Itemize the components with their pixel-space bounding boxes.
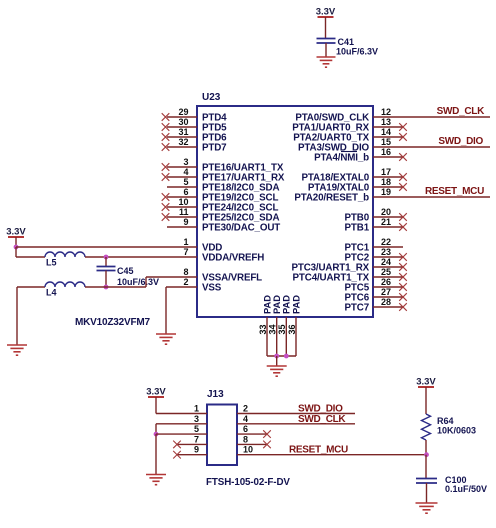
U23 left pin 2 VSS xyxy=(183,277,221,293)
svg-text:PTA4/NMI_b: PTA4/NMI_b xyxy=(314,152,369,163)
wire C100 to ground xyxy=(426,483,428,503)
svg-text:J13: J13 xyxy=(207,389,224,400)
svg-text:2: 2 xyxy=(183,277,188,287)
svg-text:MKV10Z32VFM7: MKV10Z32VFM7 xyxy=(75,317,150,328)
svg-text:17: 17 xyxy=(381,167,391,177)
svg-text:27: 27 xyxy=(381,287,391,297)
wire SWD_DIO (J13 pin 2) xyxy=(237,413,355,415)
svg-text:26: 26 xyxy=(381,277,391,287)
svg-text:0.1uF/50V: 0.1uF/50V xyxy=(445,484,487,494)
svg-text:10: 10 xyxy=(178,197,188,207)
svg-text:4: 4 xyxy=(243,414,248,424)
wire L5 to pin 7 xyxy=(85,256,197,258)
ground U23 pads xyxy=(267,366,287,376)
U23 right pin 17 PTA18/EXTAL0 xyxy=(301,167,406,183)
svg-text:RESET_MCU: RESET_MCU xyxy=(425,186,484,197)
wire pad bus stem xyxy=(276,356,278,366)
wire RESET_MCU (J13 pin 10) xyxy=(237,454,427,456)
J13 left pin 5 number xyxy=(194,424,199,434)
net label SWD_CLK xyxy=(437,106,485,117)
svg-text:30: 30 xyxy=(178,117,188,127)
wire R64 to junction xyxy=(425,440,427,455)
svg-text:C41: C41 xyxy=(338,37,355,47)
junction RESET_MCU/R64 xyxy=(424,452,429,457)
svg-text:3.3V: 3.3V xyxy=(416,377,436,388)
svg-text:SWD_DIO: SWD_DIO xyxy=(438,136,483,147)
label C45 xyxy=(117,266,134,276)
svg-text:22: 22 xyxy=(381,237,391,247)
U23 bottom pin 34 PAD xyxy=(268,295,283,356)
wire J13 pin 5 xyxy=(156,433,207,435)
svg-text:10: 10 xyxy=(243,445,253,455)
wire RESET_MCU (pin 19) xyxy=(373,196,490,198)
J13 right pin 2 number xyxy=(243,404,248,414)
ground J13 xyxy=(146,475,166,485)
U23 left pin 8 VSSA/VREFL xyxy=(183,267,262,283)
wire SWD_DIO (pin 15) xyxy=(373,146,490,148)
J13 pin 8 stub xyxy=(237,441,271,449)
svg-text:1: 1 xyxy=(194,404,199,414)
wire C41 to ground xyxy=(325,43,327,57)
power 3.3V (J13) xyxy=(146,387,166,398)
svg-text:L5: L5 xyxy=(46,258,57,268)
label R64 value xyxy=(437,426,476,436)
net label SWD_CLK (J13) xyxy=(298,414,346,425)
wire C45 top xyxy=(105,257,107,267)
J13 right pin 6 number xyxy=(243,424,248,434)
power 3.3V (R64) xyxy=(416,377,436,388)
svg-text:29: 29 xyxy=(178,107,188,117)
label L4 xyxy=(46,288,57,298)
power 3.3V (C41) xyxy=(316,7,336,18)
wire J13 gnd stem xyxy=(155,434,157,474)
U23 left pin 4 PTE17/UART1_RX xyxy=(162,167,285,183)
svg-text:RESET_MCU: RESET_MCU xyxy=(289,445,348,456)
label C100 xyxy=(445,475,467,485)
svg-text:36: 36 xyxy=(287,324,297,334)
svg-text:3: 3 xyxy=(194,414,199,424)
svg-text:8: 8 xyxy=(183,267,188,277)
U23 right pin 12 PTA0/SWD_CLK xyxy=(295,107,391,123)
U23 left pin 32 PTD7 xyxy=(162,137,227,153)
svg-text:3.3V: 3.3V xyxy=(6,227,26,238)
net label SWD_DIO xyxy=(438,136,483,147)
U23 right pin 20 PTB0 xyxy=(345,207,407,223)
ground VSS xyxy=(156,334,176,344)
svg-text:35: 35 xyxy=(277,324,287,334)
svg-text:PAD: PAD xyxy=(282,295,292,314)
svg-text:6: 6 xyxy=(183,187,188,197)
svg-text:8: 8 xyxy=(243,434,248,444)
svg-text:3.3V: 3.3V xyxy=(146,387,166,398)
junction pad bus B xyxy=(284,354,289,359)
U23 right pin 27 PTC6 xyxy=(345,287,407,303)
svg-text:10K/0603: 10K/0603 xyxy=(437,426,476,436)
svg-text:9: 9 xyxy=(183,217,188,227)
svg-text:2: 2 xyxy=(243,404,248,414)
svg-text:33: 33 xyxy=(258,324,268,334)
J13 left pin 9 number xyxy=(194,445,199,455)
svg-text:34: 34 xyxy=(268,324,278,334)
U23 reference designator xyxy=(202,92,221,103)
label MKV10Z32VFM7 xyxy=(75,317,150,328)
svg-text:PAD: PAD xyxy=(291,295,301,314)
capacitor C45 xyxy=(97,267,116,271)
svg-text:21: 21 xyxy=(381,217,391,227)
wire VDD net to pin 1 xyxy=(16,246,197,248)
svg-text:7: 7 xyxy=(194,434,199,444)
svg-text:PTB1: PTB1 xyxy=(345,222,370,233)
ground C41 xyxy=(317,57,336,67)
capacitor C100 xyxy=(416,479,437,484)
U23 left pin 31 PTD6 xyxy=(162,127,227,143)
U23 left pin 7 VDDA/VREFH xyxy=(183,247,264,263)
U23 right pin 13 PTA1/UART0_RX xyxy=(292,117,407,133)
svg-text:28: 28 xyxy=(381,297,391,307)
svg-text:20: 20 xyxy=(381,207,391,217)
U23 left pin 10 PTE24/I2C0_SCL xyxy=(162,197,279,213)
label R64 xyxy=(437,416,454,426)
resistor R64 xyxy=(422,414,431,440)
wire 3.3V to R64 xyxy=(425,387,427,414)
J13 left pin 1 number xyxy=(194,404,199,414)
wire C45 bottom xyxy=(105,271,107,288)
svg-text:9: 9 xyxy=(194,445,199,455)
wire 3.3V stem xyxy=(15,237,17,247)
svg-text:18: 18 xyxy=(381,177,391,187)
inductor L5 xyxy=(45,252,85,257)
U23 right pin 28 PTC7 xyxy=(345,297,407,313)
svg-text:VSS: VSS xyxy=(202,282,222,293)
J13 right pin 4 number xyxy=(243,414,248,424)
wire junction to C100 xyxy=(425,455,427,479)
U23 right pin 25 PTC4/UART1_TX xyxy=(293,267,407,283)
svg-text:1: 1 xyxy=(183,237,188,247)
svg-text:C45: C45 xyxy=(117,266,134,276)
ground L4 (bottom left) xyxy=(7,345,27,355)
junction C45/L4 xyxy=(104,285,109,290)
U23 right pin 22 PTC1 xyxy=(345,237,403,253)
U23 left pin 3 PTE16/UART1_TX xyxy=(162,157,284,173)
J13 pin 7 stub xyxy=(173,441,207,449)
svg-text:PTC7: PTC7 xyxy=(345,302,370,313)
svg-text:23: 23 xyxy=(381,247,391,257)
svg-text:11: 11 xyxy=(179,207,189,217)
U23 right pin 19 PTA20/RESET_b xyxy=(294,187,391,203)
junction J13 gnd xyxy=(154,432,159,437)
wire SWD_CLK (J13 pin 4) xyxy=(237,423,355,425)
connector J13 body xyxy=(207,405,237,466)
U23 left pin 29 PTD4 xyxy=(162,107,227,123)
J13 right pin 10 number xyxy=(243,445,253,455)
J13 reference designator xyxy=(207,389,224,400)
svg-text:16: 16 xyxy=(381,147,391,157)
label C41 value xyxy=(336,47,378,57)
label C41 xyxy=(338,37,355,47)
label C100 value xyxy=(445,484,487,494)
junction pad bus A xyxy=(274,354,279,359)
U23 right pin 14 PTA2/UART0_TX xyxy=(293,127,407,143)
svg-text:10uF/6.3V: 10uF/6.3V xyxy=(117,277,159,287)
svg-text:PTE30/DAC_OUT: PTE30/DAC_OUT xyxy=(202,222,280,233)
wire J13 pin 3 xyxy=(156,424,207,434)
svg-text:14: 14 xyxy=(381,127,391,137)
wire 3.3V to C41 xyxy=(325,17,327,39)
svg-text:19: 19 xyxy=(381,187,391,197)
J13 pin 9 stub xyxy=(173,451,207,459)
svg-text:13: 13 xyxy=(381,117,391,127)
svg-text:25: 25 xyxy=(381,267,391,277)
junction 3.3V left xyxy=(14,245,19,250)
U23 bottom pin 36 PAD xyxy=(287,295,302,356)
net label RESET_MCU xyxy=(425,186,484,197)
wire pad ground bus xyxy=(267,355,296,357)
svg-text:FTSH-105-02-F-DV: FTSH-105-02-F-DV xyxy=(206,477,290,488)
J13 right pin 8 number xyxy=(243,434,248,444)
U23 left pin 5 PTE18/I2C0_SDA xyxy=(167,177,279,193)
svg-text:5: 5 xyxy=(194,424,199,434)
power 3.3V (left) xyxy=(6,227,26,238)
svg-text:12: 12 xyxy=(381,107,391,117)
U23 left pin 11 PTE25/I2C0_SDA xyxy=(162,207,280,223)
svg-text:L4: L4 xyxy=(46,288,57,298)
wire SWD_CLK (pin 12) xyxy=(373,116,490,118)
wire VSS pin 2 to ground xyxy=(166,287,197,334)
U23 right pin 18 PTA19/XTAL0 xyxy=(308,177,407,193)
U23 right pin 23 PTC2 xyxy=(345,247,407,263)
svg-text:PAD: PAD xyxy=(272,295,282,314)
U23 right pin 21 PTB1 xyxy=(345,217,407,233)
U23 left pin 30 PTD5 xyxy=(162,117,227,133)
wire 3.3V to J13 pin 1 xyxy=(156,397,207,414)
svg-text:10uF/6.3V: 10uF/6.3V xyxy=(336,47,378,57)
label FTSH-105-02-F-DV xyxy=(206,477,290,488)
svg-text:5: 5 xyxy=(183,177,188,187)
IC U23 MKV10Z32VFM7 body xyxy=(197,106,373,317)
capacitor C41 xyxy=(317,39,336,44)
wire down to L5 row xyxy=(16,247,45,257)
svg-text:VDDA/VREFH: VDDA/VREFH xyxy=(202,252,264,263)
svg-text:7: 7 xyxy=(183,247,188,257)
U23 bottom pin 33 PAD xyxy=(258,295,273,356)
U23 left pin 6 PTE19/I2C0_SCL xyxy=(162,187,279,203)
U23 left pin 9 PTE30/DAC_OUT xyxy=(167,217,280,233)
svg-text:SWD_CLK: SWD_CLK xyxy=(298,414,346,425)
J13 pin 6 stub xyxy=(237,430,271,438)
svg-text:24: 24 xyxy=(381,257,391,267)
U23 bottom pin 35 PAD xyxy=(277,295,292,356)
svg-text:PTD7: PTD7 xyxy=(202,142,227,153)
svg-text:PAD: PAD xyxy=(262,295,272,314)
svg-text:15: 15 xyxy=(381,137,391,147)
wire L4 left leg xyxy=(17,287,45,345)
junction VDDA/C45 xyxy=(104,255,109,260)
U23 right pin 26 PTC5 xyxy=(345,277,407,293)
label C45 value xyxy=(117,277,159,287)
J13 left pin 7 number xyxy=(194,434,199,444)
label L5 xyxy=(46,258,57,268)
svg-text:6: 6 xyxy=(243,424,248,434)
pin 16 NMI overline xyxy=(341,151,357,153)
U23 right pin 24 PTC3/UART1_RX xyxy=(291,257,406,273)
U23 left pin 1 VDD xyxy=(183,237,222,253)
svg-text:4: 4 xyxy=(183,167,188,177)
inductor L4 xyxy=(45,282,85,287)
U23 right pin 16 PTA4/NMI_b xyxy=(314,147,407,163)
svg-text:PTA20/RESET_b: PTA20/RESET_b xyxy=(294,192,369,203)
ground C100 xyxy=(416,503,438,513)
svg-text:U23: U23 xyxy=(202,92,221,103)
net label RESET_MCU (J13) xyxy=(289,445,348,456)
wire L4 to pin 8 xyxy=(85,277,197,287)
svg-text:R64: R64 xyxy=(437,416,454,426)
J13 left pin 3 number xyxy=(194,414,199,424)
svg-text:SWD_CLK: SWD_CLK xyxy=(437,106,485,117)
svg-text:3: 3 xyxy=(183,157,188,167)
U23 right pin 15 PTA3/SWD_DIO xyxy=(298,137,391,153)
svg-text:31: 31 xyxy=(178,127,188,137)
svg-text:3.3V: 3.3V xyxy=(316,7,336,18)
net label SWD_DIO (J13) xyxy=(298,404,343,415)
svg-text:32: 32 xyxy=(178,137,188,147)
